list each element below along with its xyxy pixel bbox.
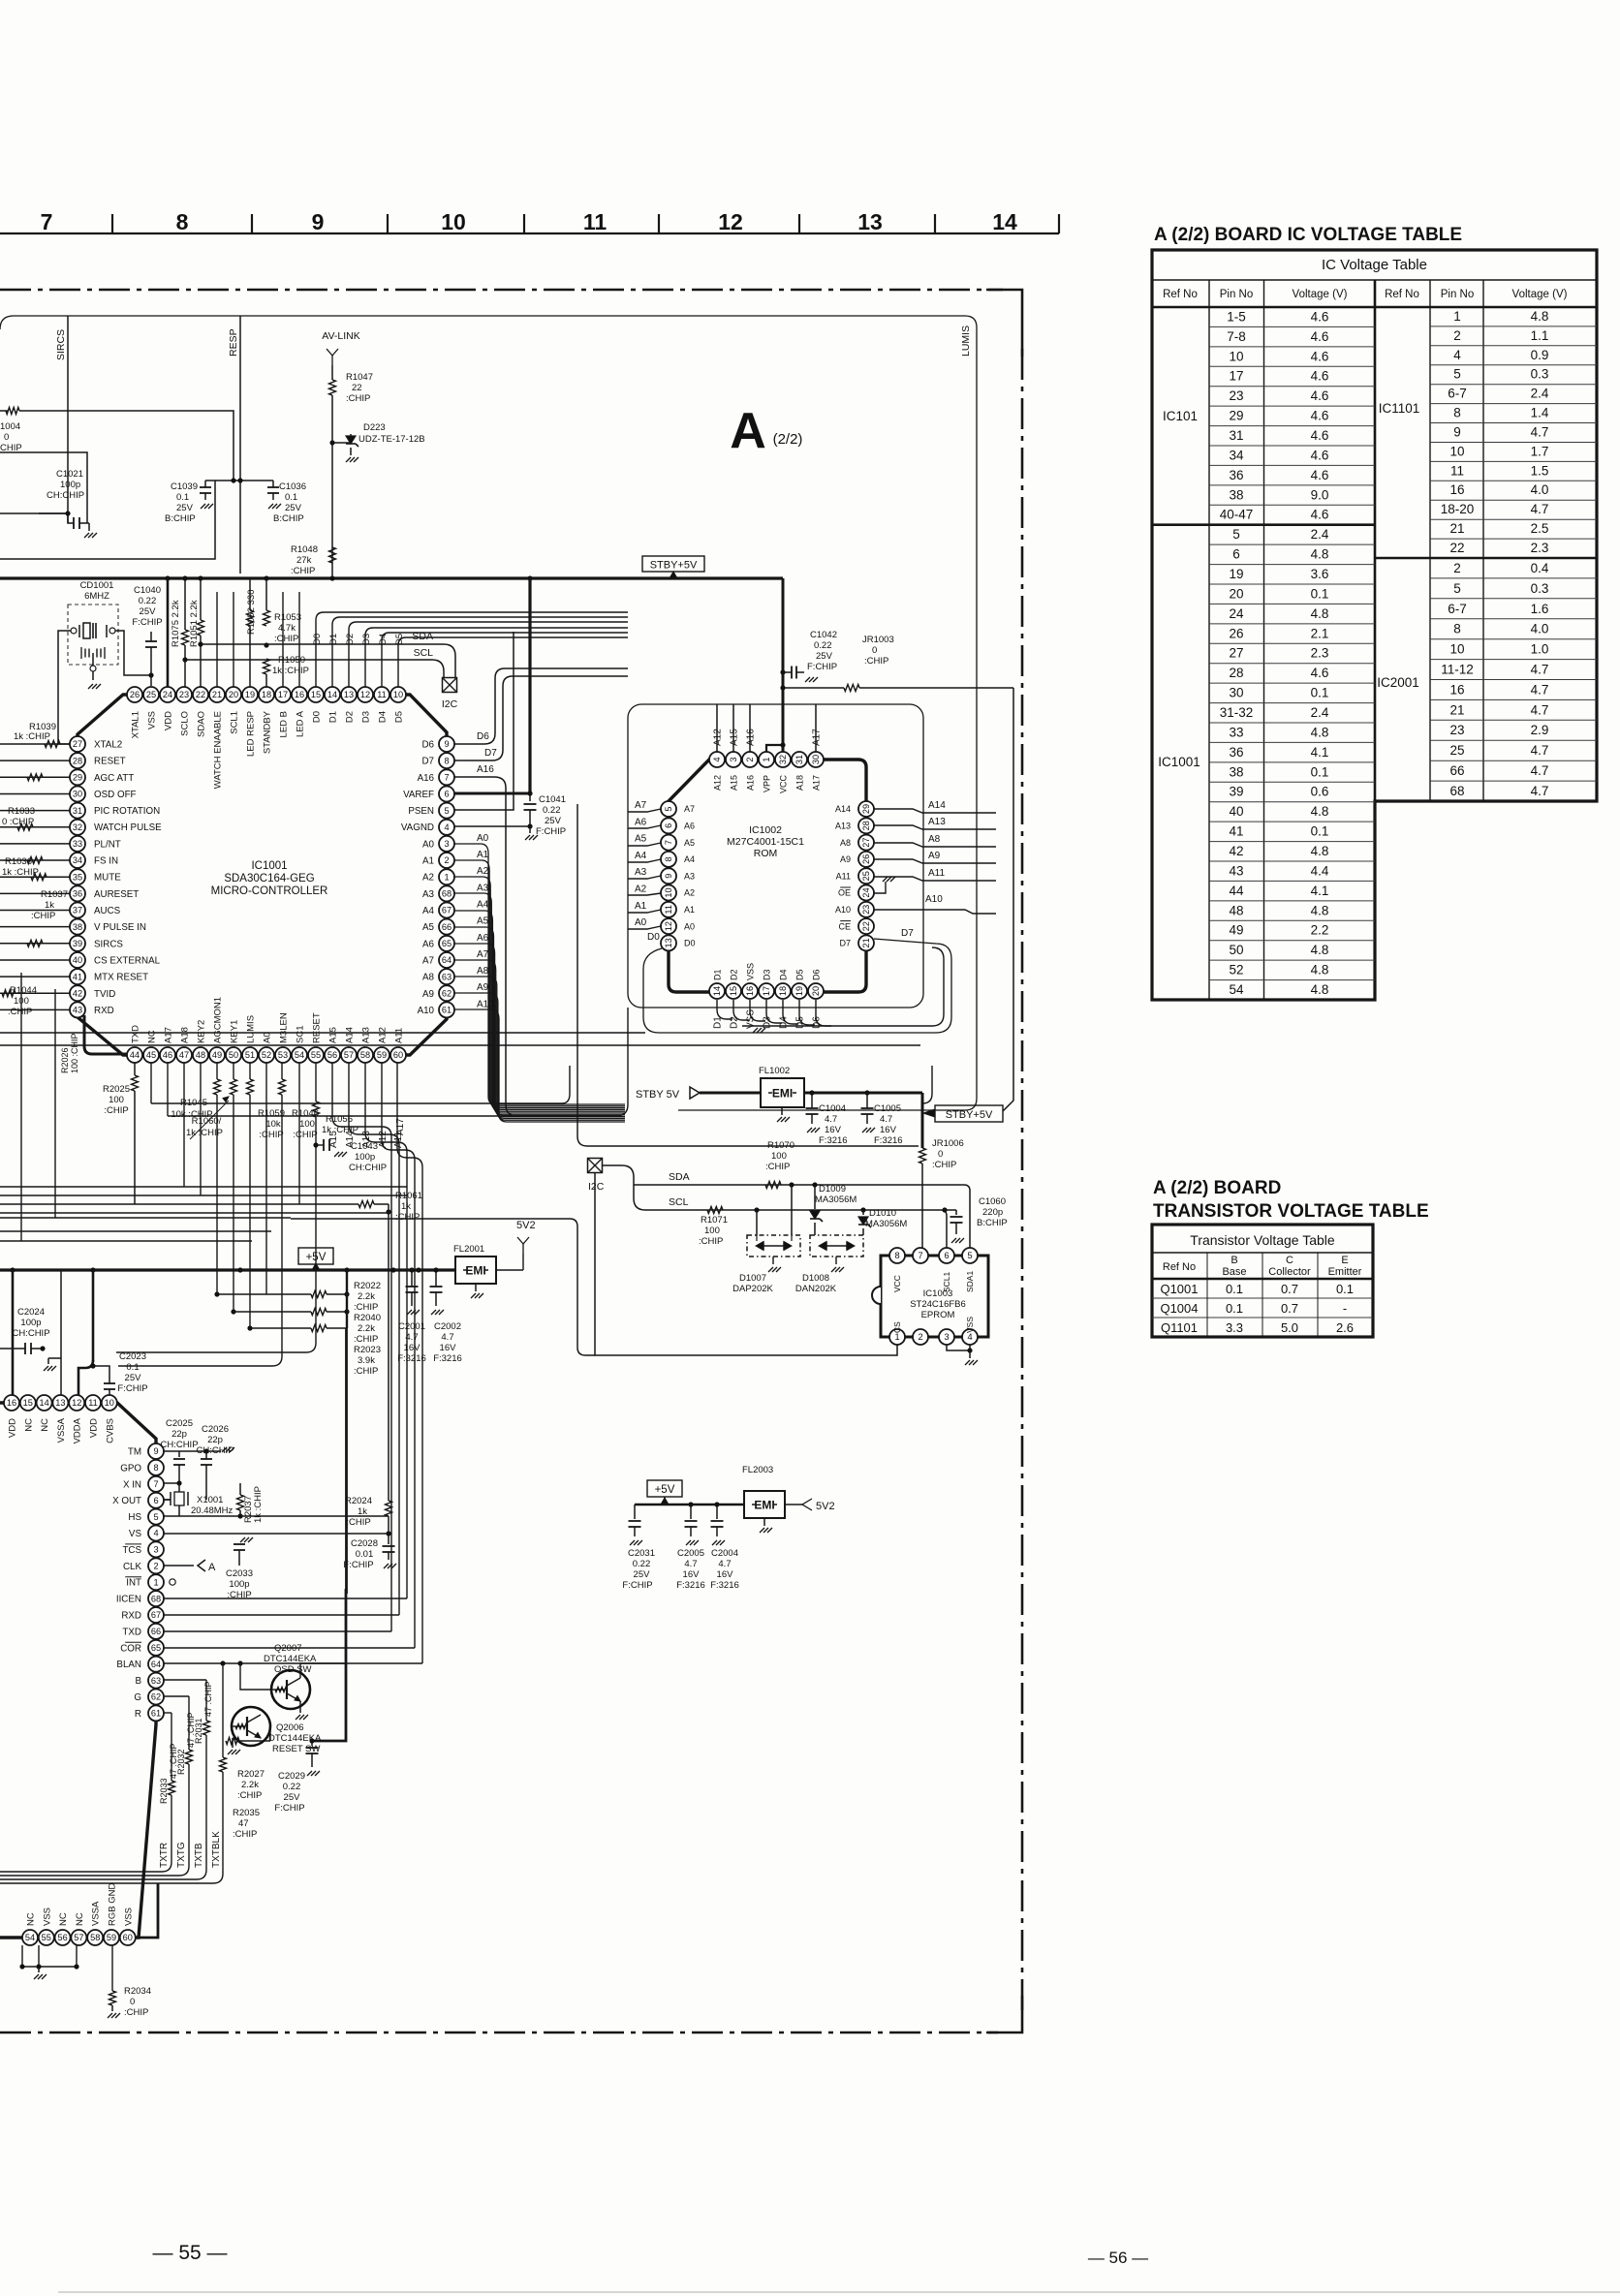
wire GPO cap: [201, 1458, 212, 1460]
svg-text:R2025: R2025: [103, 1084, 130, 1095]
svg-text:26: 26: [1229, 626, 1243, 640]
IC voltage table outer border: [1152, 250, 1597, 1000]
IC1003 bottom pins: [889, 1329, 905, 1345]
faint page bottom edge: [58, 2291, 1620, 2293]
svg-text:VPP: VPP: [763, 775, 772, 792]
transistor Q2006: [232, 1707, 270, 1746]
svg-text:48: 48: [196, 1050, 205, 1060]
svg-text:A: A: [208, 1562, 216, 1573]
svg-text:SDA30C164-GEG: SDA30C164-GEG: [224, 873, 314, 884]
svg-text:58: 58: [360, 1050, 370, 1060]
wire X OUT link: [164, 1499, 171, 1501]
svg-text:0.22: 0.22: [283, 1782, 301, 1792]
svg-text:F:3216: F:3216: [874, 1135, 903, 1146]
antenna AV-LINK: [331, 356, 333, 365]
svg-text:34: 34: [1229, 448, 1244, 462]
svg-text:OE: OE: [838, 888, 851, 898]
svg-text:30: 30: [1229, 686, 1243, 700]
svg-text:A2: A2: [635, 884, 647, 895]
svg-text:0.22: 0.22: [543, 805, 561, 816]
resistor R1050: [265, 578, 267, 610]
wire left entry 1: [0, 410, 8, 412]
IC voltage table mid divider: [1374, 280, 1377, 1000]
svg-text:60: 60: [393, 1050, 403, 1060]
svg-text:16V: 16V: [440, 1343, 457, 1353]
svg-text:A9: A9: [840, 854, 851, 864]
svg-text:D1: D1: [713, 1016, 724, 1029]
svg-text:0.1: 0.1: [1311, 764, 1329, 779]
svg-text:A11: A11: [928, 868, 945, 879]
resistor R1048: [329, 547, 336, 563]
svg-text:4.8: 4.8: [1311, 844, 1329, 858]
svg-text:M27C4001-15C1: M27C4001-15C1: [727, 836, 804, 848]
svg-text:(2/2): (2/2): [773, 431, 803, 448]
svg-text:D1009: D1009: [819, 1184, 846, 1195]
resistor on FS IN: [27, 857, 43, 864]
resistor on SIRCS: [27, 940, 43, 946]
grid ruler ticks: [111, 214, 113, 233]
resistor R1059: [247, 1079, 254, 1095]
svg-text:35: 35: [73, 872, 82, 882]
svg-text:56: 56: [57, 1933, 67, 1942]
svg-text:D2: D2: [730, 969, 739, 980]
svg-text:6-7: 6-7: [1448, 602, 1467, 616]
svg-text:A11: A11: [836, 871, 851, 881]
svg-text:R1071: R1071: [701, 1215, 728, 1226]
svg-text:9.0: 9.0: [1311, 487, 1329, 502]
diode pack D1008: [810, 1235, 863, 1257]
diode pack D1007: [747, 1235, 800, 1257]
svg-text:34: 34: [73, 855, 82, 865]
svg-text:4.6: 4.6: [1311, 666, 1329, 680]
wire thick south rail: [345, 1328, 348, 1594]
wire C2023 link: [78, 1360, 93, 1395]
wire R-group feed: [346, 1270, 348, 1328]
svg-text:20: 20: [1229, 586, 1243, 601]
svg-text:VSSA: VSSA: [56, 1417, 67, 1443]
svg-text:5: 5: [153, 1512, 158, 1522]
svg-text:LED A: LED A: [296, 710, 306, 737]
svg-text:17: 17: [278, 690, 288, 699]
capacitor C2004: [714, 1502, 719, 1506]
svg-text:A14: A14: [928, 800, 946, 811]
svg-text:4.8: 4.8: [1311, 943, 1329, 957]
svg-text:27: 27: [1229, 646, 1243, 661]
svg-text:16: 16: [1449, 682, 1464, 697]
svg-text:R1045: R1045: [180, 1098, 207, 1108]
capacitor C2028: [383, 1545, 395, 1547]
svg-text:1.6: 1.6: [1531, 602, 1549, 616]
wire +5V bottom rail: [635, 1504, 744, 1506]
svg-text:R2027: R2027: [237, 1769, 265, 1780]
svg-text:61: 61: [442, 1006, 452, 1015]
svg-text:TCS: TCS: [122, 1545, 141, 1556]
svg-text:4.0: 4.0: [1531, 622, 1549, 636]
svg-text:SCL: SCL: [414, 647, 434, 659]
svg-text:14: 14: [39, 1398, 48, 1408]
svg-text:C1036: C1036: [279, 481, 306, 492]
svg-text:C2028: C2028: [351, 1538, 378, 1549]
svg-text:TXTR: TXTR: [159, 1843, 170, 1868]
svg-text:R2022: R2022: [354, 1281, 381, 1291]
svg-text:4.7: 4.7: [441, 1332, 453, 1343]
svg-text::CHIP: :CHIP: [346, 393, 370, 404]
svg-text:25V: 25V: [125, 1373, 142, 1383]
svg-text:4.0: 4.0: [1531, 482, 1549, 497]
resistor R2023: [247, 1325, 252, 1330]
crystal X1001: [164, 1482, 179, 1484]
svg-text:8: 8: [153, 1463, 158, 1473]
svg-text:17: 17: [1229, 369, 1243, 384]
svg-text:50: 50: [229, 1050, 238, 1060]
svg-text:11: 11: [1450, 463, 1464, 478]
resistor R2024: [386, 1501, 392, 1516]
IC voltage table section separators: [1152, 523, 1375, 526]
svg-text:NC: NC: [58, 1912, 69, 1926]
svg-text:F:CHIP: F:CHIP: [622, 1580, 652, 1591]
svg-text:27: 27: [73, 739, 82, 749]
wire IC1002 bottom data stubs: [717, 1000, 732, 1019]
svg-text:25: 25: [146, 690, 156, 699]
svg-text:8: 8: [444, 756, 449, 765]
svg-text:47 :CHIP: 47 :CHIP: [203, 1681, 213, 1717]
svg-text:ST24C16FB6: ST24C16FB6: [910, 1299, 966, 1310]
svg-text:A12: A12: [713, 775, 723, 791]
svg-text:C2005: C2005: [677, 1548, 704, 1559]
svg-text:1k :CHIP: 1k :CHIP: [186, 1128, 223, 1138]
svg-text:VAREF: VAREF: [403, 790, 434, 800]
svg-text:6: 6: [444, 790, 449, 799]
svg-text:R1060/: R1060/: [192, 1116, 222, 1127]
svg-text:16V: 16V: [880, 1125, 897, 1135]
svg-text::CHIP: :CHIP: [31, 911, 55, 921]
svg-text:A2: A2: [422, 873, 434, 884]
svg-text:11: 11: [88, 1398, 98, 1408]
svg-text:X IN: X IN: [123, 1479, 141, 1490]
svg-text:32: 32: [778, 755, 788, 764]
svg-text:36: 36: [1229, 745, 1243, 760]
svg-text:STBY+5V: STBY+5V: [650, 560, 698, 572]
svg-text:18-20: 18-20: [1441, 502, 1475, 516]
wire A15-A11 south runs: [332, 1063, 391, 1631]
svg-text:— 55 —: — 55 —: [152, 2242, 227, 2264]
svg-text:VSS: VSS: [965, 1317, 975, 1333]
capacitor C1005: [864, 1090, 869, 1095]
wire STBY+5V bus: [0, 576, 783, 579]
rail junction dots: [10, 1267, 15, 1272]
svg-text:1: 1: [444, 872, 449, 882]
svg-text:11-12: 11-12: [1441, 663, 1474, 677]
svg-text:62: 62: [442, 989, 452, 999]
svg-text:A16: A16: [418, 773, 435, 784]
svg-text:1k :CHIP: 1k :CHIP: [272, 666, 309, 676]
svg-text:9: 9: [153, 1446, 158, 1456]
svg-text:TM: TM: [128, 1447, 141, 1458]
svg-text:Transistor Voltage Table: Transistor Voltage Table: [1190, 1232, 1335, 1248]
svg-text:CLK: CLK: [123, 1562, 142, 1572]
svg-text:16V: 16V: [404, 1343, 421, 1353]
svg-text:7: 7: [444, 773, 449, 783]
svg-text:A0: A0: [635, 917, 647, 928]
wire distribution vertical 596: [577, 804, 919, 1146]
svg-text:PL/NT: PL/NT: [94, 839, 121, 850]
svg-text:D1010: D1010: [869, 1208, 896, 1219]
svg-text:TRANSISTOR VOLTAGE TABLE: TRANSISTOR VOLTAGE TABLE: [1153, 1201, 1429, 1222]
svg-text:27k: 27k: [296, 555, 312, 566]
svg-text:100p: 100p: [355, 1152, 375, 1163]
wire D6 stub: [454, 668, 628, 744]
svg-text:JR1003: JR1003: [862, 635, 894, 645]
svg-text:13: 13: [664, 938, 673, 947]
IC2001 top pin row 16-10: [4, 1395, 19, 1411]
svg-text::CHIP: :CHIP: [259, 1130, 283, 1140]
svg-text:0.1: 0.1: [176, 492, 189, 503]
svg-text:CS: CS: [892, 1321, 902, 1333]
wire lower box line 1258: [291, 1219, 595, 1355]
svg-text:OSD SW: OSD SW: [274, 1664, 312, 1675]
svg-text:1.0: 1.0: [1531, 642, 1549, 657]
svg-text:D5: D5: [795, 969, 805, 980]
svg-text:42: 42: [73, 989, 82, 999]
svg-text:A14: A14: [345, 1027, 356, 1043]
IC2001 left pin col 9-61: [148, 1443, 164, 1459]
svg-text:67: 67: [151, 1610, 161, 1620]
resistor R1047: [331, 365, 333, 380]
svg-text:TXTBLK: TXTBLK: [211, 1831, 222, 1868]
svg-text:0.22: 0.22: [814, 640, 832, 651]
svg-text:R1075 2.2k: R1075 2.2k: [171, 600, 181, 647]
svg-text:V PULSE IN: V PULSE IN: [94, 922, 146, 933]
svg-text:A8: A8: [477, 966, 489, 977]
svg-text:4.6: 4.6: [1311, 428, 1329, 443]
svg-text:40-47: 40-47: [1220, 508, 1254, 522]
wire left band verticals: [54, 989, 56, 1218]
svg-text:NC: NC: [40, 1418, 50, 1432]
svg-text:47: 47: [238, 1818, 249, 1829]
svg-text:A15: A15: [328, 1131, 339, 1148]
svg-text:4.6: 4.6: [1311, 448, 1329, 462]
resistor R2027: [226, 1738, 239, 1745]
svg-text:A16: A16: [746, 729, 757, 746]
svg-text:32: 32: [73, 822, 82, 832]
svg-text:54: 54: [1229, 982, 1244, 997]
svg-text:A2: A2: [477, 866, 489, 877]
svg-text:12: 12: [72, 1398, 81, 1408]
svg-text:XTAL1: XTAL1: [131, 711, 141, 738]
svg-text:IC2001: IC2001: [1377, 675, 1419, 690]
wire CLK row / A marker: [164, 1565, 194, 1567]
svg-text:4.7: 4.7: [1531, 682, 1549, 697]
svg-text:2.9: 2.9: [1531, 723, 1549, 737]
svg-text:0 :CHIP: 0 :CHIP: [2, 817, 34, 827]
svg-text:D6: D6: [477, 731, 489, 742]
svg-text:4.7: 4.7: [880, 1114, 892, 1125]
svg-text:45: 45: [146, 1050, 156, 1060]
svg-text:27: 27: [861, 837, 871, 847]
resistor R1061: [0, 1203, 358, 1205]
svg-text:A1: A1: [477, 850, 489, 860]
svg-text:23: 23: [1229, 388, 1243, 403]
svg-text:A15: A15: [730, 729, 740, 746]
svg-text:G: G: [134, 1692, 141, 1703]
IC1002 bottom pin row: [709, 983, 725, 999]
wire R2024 branch: [388, 1270, 389, 1501]
svg-text:1: 1: [153, 1577, 158, 1587]
IC1001 top pin row 26-10: [127, 687, 142, 702]
svg-text:VDD: VDD: [8, 1418, 18, 1438]
svg-text:21: 21: [1449, 521, 1464, 536]
svg-text:A8: A8: [840, 838, 851, 848]
svg-text:59: 59: [107, 1933, 116, 1942]
svg-text:12: 12: [718, 209, 743, 234]
svg-text:58: 58: [90, 1933, 100, 1942]
resistor R1045: [214, 1079, 221, 1095]
svg-text::CHIP: :CHIP: [354, 1366, 378, 1377]
svg-text:0: 0: [938, 1149, 943, 1160]
svg-text:25V: 25V: [176, 503, 194, 513]
bus junction dots: [165, 575, 170, 580]
svg-text:36: 36: [73, 889, 82, 899]
svg-text:220p: 220p: [982, 1207, 1003, 1218]
svg-text:A11: A11: [394, 1028, 405, 1043]
resistor R1053: [264, 610, 270, 626]
svg-text:A6: A6: [635, 817, 647, 827]
IC1002 OE pin ground: [874, 882, 886, 893]
svg-text:D1: D1: [328, 634, 339, 645]
IC voltage table col header underline: [1152, 306, 1597, 309]
svg-text:B: B: [135, 1676, 141, 1687]
svg-text:65: 65: [442, 939, 452, 948]
svg-text:25V: 25V: [285, 503, 302, 513]
svg-text:DAP202K: DAP202K: [732, 1284, 773, 1294]
net label 5V2 bottom: [802, 1499, 812, 1510]
resistor JR1006: [919, 1148, 926, 1164]
wire pin60 thick: [137, 1883, 158, 1938]
svg-text:SCL1: SCL1: [942, 1271, 951, 1292]
svg-text:11: 11: [664, 905, 673, 915]
svg-text:D0: D0: [684, 939, 696, 948]
svg-text:7: 7: [41, 209, 53, 234]
svg-text:8: 8: [176, 209, 189, 234]
svg-text:10: 10: [441, 209, 466, 234]
svg-text:4.6: 4.6: [1311, 309, 1329, 324]
svg-text:22: 22: [861, 921, 871, 931]
svg-text:A: A: [730, 403, 766, 459]
svg-text:4.8: 4.8: [1311, 903, 1329, 917]
resistor R2037: [237, 1495, 244, 1510]
svg-text:X1001: X1001: [197, 1495, 223, 1505]
svg-text:TXD: TXD: [131, 1025, 141, 1043]
svg-text:3: 3: [153, 1545, 158, 1555]
svg-text:A10: A10: [835, 905, 851, 915]
svg-text:C2025: C2025: [166, 1418, 193, 1429]
svg-text:R1036: R1036: [5, 856, 32, 867]
svg-text:STBY 5V: STBY 5V: [636, 1089, 680, 1101]
svg-text:A0: A0: [477, 833, 489, 844]
svg-text:D3: D3: [763, 1016, 773, 1029]
svg-text:SC1: SC1: [296, 1026, 306, 1043]
svg-text:DAN202K: DAN202K: [795, 1284, 837, 1294]
svg-text:26: 26: [130, 690, 140, 699]
svg-text:4.6: 4.6: [1311, 388, 1329, 403]
svg-text:A18: A18: [180, 1027, 191, 1043]
svg-text:R2034: R2034: [124, 1986, 151, 1997]
svg-text:2: 2: [745, 757, 755, 761]
svg-text:A10: A10: [925, 894, 943, 905]
svg-text:C2024: C2024: [17, 1307, 45, 1318]
svg-text:C2004: C2004: [711, 1548, 738, 1559]
svg-text:44: 44: [130, 1050, 140, 1060]
svg-text:C: C: [1286, 1255, 1293, 1266]
wire address bus ring: [628, 704, 923, 1008]
svg-text:Ref No: Ref No: [1163, 289, 1198, 300]
svg-text:47: 47: [179, 1050, 189, 1060]
svg-text:Pin No: Pin No: [1441, 289, 1475, 300]
svg-text::CHIP: :CHIP: [233, 1829, 257, 1840]
svg-text:25V: 25V: [545, 816, 562, 826]
resistor R1036: [31, 874, 47, 881]
svg-text:43: 43: [73, 1006, 82, 1015]
svg-text:43: 43: [1229, 863, 1243, 878]
svg-text:D1: D1: [328, 711, 339, 723]
svg-text:53: 53: [278, 1050, 288, 1060]
svg-text:20: 20: [229, 690, 238, 699]
svg-text:NC: NC: [147, 1030, 158, 1043]
svg-text:RESET: RESET: [312, 1012, 323, 1043]
svg-text:10: 10: [1449, 444, 1464, 458]
svg-text::CHIP: :CHIP: [765, 1162, 790, 1172]
svg-text:41: 41: [1229, 824, 1243, 839]
svg-text:IC1002: IC1002: [749, 824, 782, 836]
svg-text:TXTG: TXTG: [176, 1842, 187, 1868]
svg-text:100p: 100p: [20, 1318, 41, 1328]
svg-text:UDZ-TE-17-12B: UDZ-TE-17-12B: [358, 434, 425, 445]
svg-text:4: 4: [712, 757, 722, 761]
svg-text:A8: A8: [422, 973, 435, 983]
svg-text:C2031: C2031: [628, 1548, 655, 1559]
resistor on AGC ATT: [27, 774, 43, 781]
svg-text:3: 3: [944, 1332, 949, 1342]
svg-text:12: 12: [664, 921, 673, 931]
svg-text:A3: A3: [422, 889, 435, 900]
transistor voltage table col dividers: [1206, 1253, 1208, 1337]
svg-text:16V: 16V: [825, 1125, 842, 1135]
svg-text:59: 59: [377, 1050, 387, 1060]
IC1003 top pins: [889, 1248, 905, 1263]
svg-text:NC: NC: [26, 1912, 37, 1926]
svg-text:1: 1: [1453, 309, 1461, 324]
svg-text:14: 14: [712, 986, 722, 996]
svg-text:B:CHIP: B:CHIP: [165, 513, 196, 524]
ic IC1003 body: [881, 1256, 988, 1337]
svg-text:10: 10: [1229, 349, 1243, 363]
svg-text:AV-LINK: AV-LINK: [322, 330, 360, 342]
svg-text:RESET: RESET: [94, 757, 126, 767]
svg-text:A13: A13: [361, 1027, 372, 1043]
svg-text:IC Voltage Table: IC Voltage Table: [1322, 257, 1427, 273]
svg-text:0: 0: [130, 1997, 135, 2007]
svg-text:D0: D0: [312, 634, 323, 645]
svg-text:D1008: D1008: [802, 1273, 829, 1284]
svg-text:Q2007: Q2007: [274, 1643, 302, 1654]
svg-text:25: 25: [1449, 743, 1464, 758]
wire D7 stub: [454, 676, 628, 760]
wire band curls right end: [922, 1066, 932, 1103]
svg-text:D7: D7: [901, 928, 914, 939]
svg-text:2.4: 2.4: [1531, 387, 1549, 401]
IC1001 left pin col 27-43: [70, 736, 85, 752]
svg-text::CHIP: :CHIP: [699, 1236, 723, 1247]
